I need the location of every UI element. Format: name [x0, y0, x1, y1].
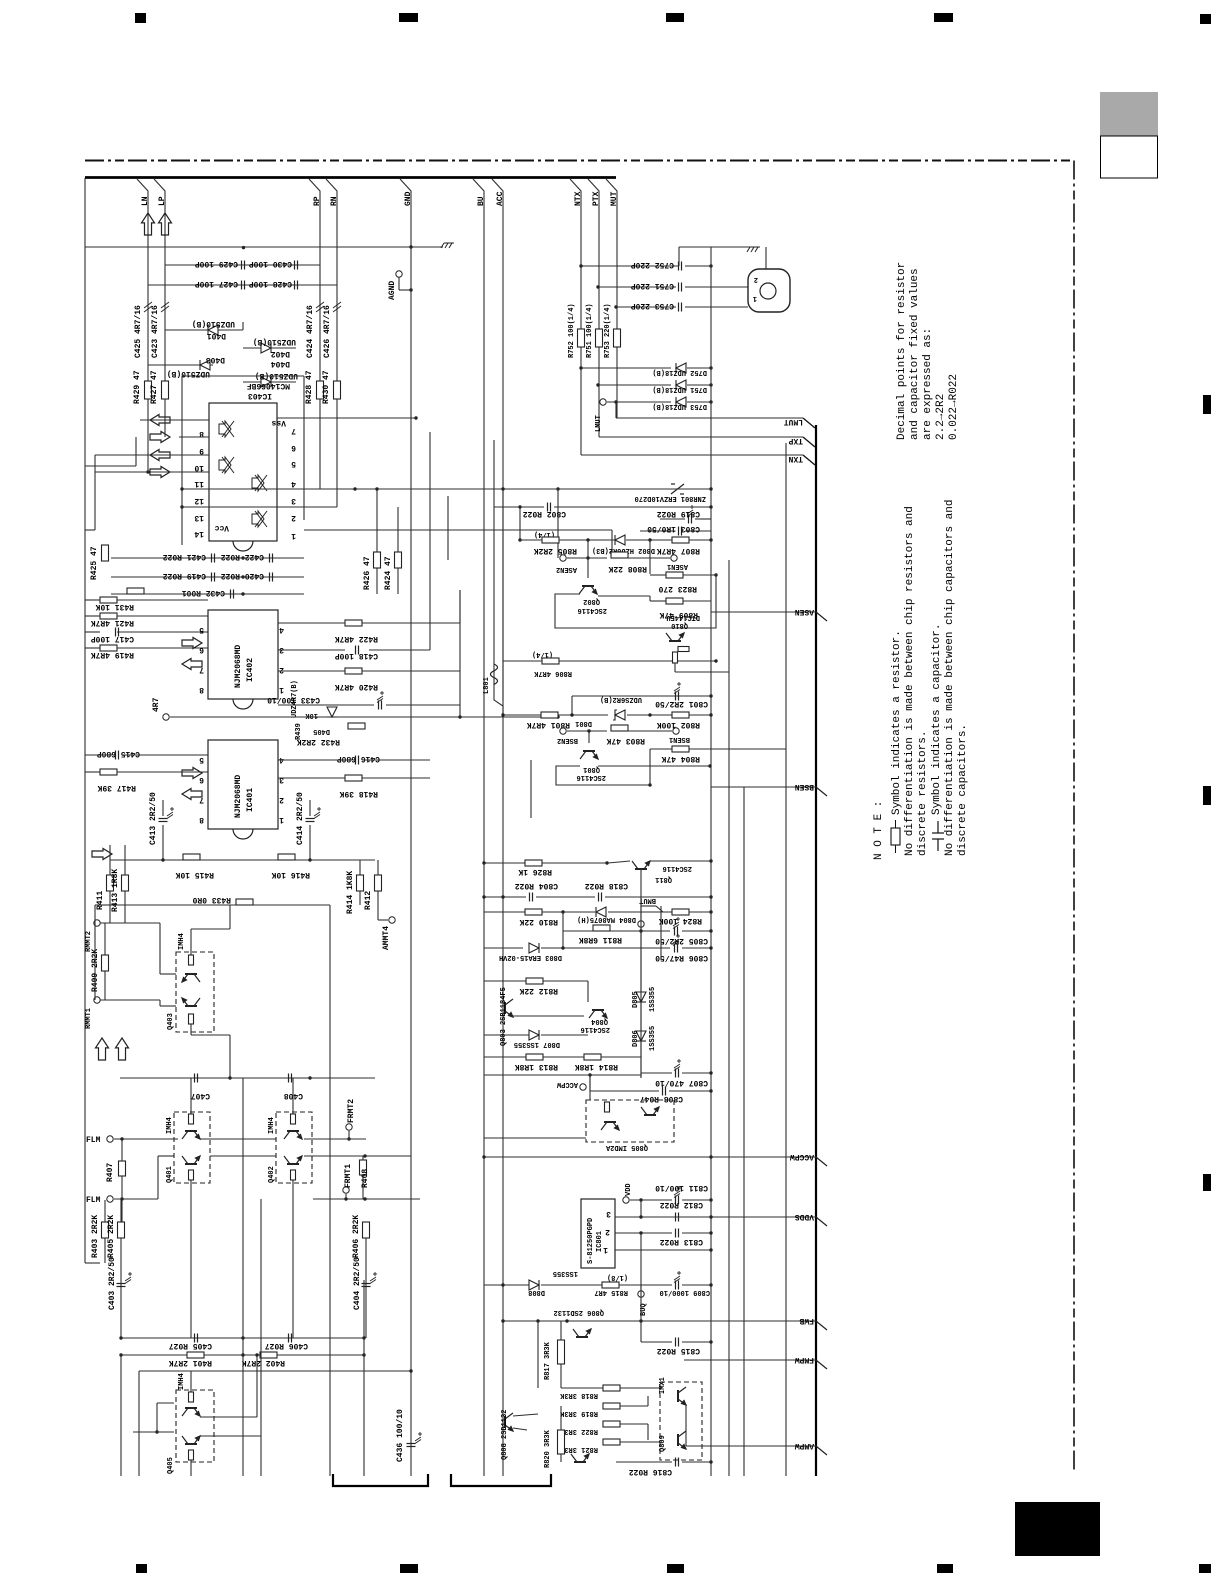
wire: [309, 825, 311, 860]
wire cap row: [148, 284, 337, 286]
junction: [614, 400, 617, 403]
wire: [620, 1423, 648, 1425]
svg-text:D801: D801: [575, 719, 592, 727]
svg-text:C407: C407: [191, 1091, 210, 1100]
svg-text:C815 R022: C815 R022: [657, 1346, 700, 1355]
svg-text:Q805 IMD2A: Q805 IMD2A: [605, 1143, 648, 1151]
wire ic403 pin1 row: [304, 529, 612, 531]
svg-text:D807 1SS355: D807 1SS355: [514, 1040, 560, 1048]
polarity mark: [167, 807, 174, 819]
wire: [587, 540, 589, 558]
svg-text:C428 100P: C428 100P: [249, 279, 292, 288]
svg-text:D806: D806: [632, 1030, 640, 1047]
svg-text:C422 R022: C422 R022: [221, 552, 264, 561]
transistor Q804 2SC4116: [589, 1010, 607, 1018]
wire NTX: [570, 179, 581, 329]
svg-text:1SS355: 1SS355: [553, 1269, 578, 1277]
svg-text:6: 6: [199, 775, 204, 784]
polarity mark: [415, 1432, 422, 1444]
wire GND: [400, 179, 411, 1476]
wire: [620, 1387, 660, 1389]
svg-text:R804 47K: R804 47K: [661, 754, 700, 763]
capacitor C808: [663, 1087, 666, 1096]
transistor Q809b: [678, 1431, 686, 1449]
wire q802 loop: [555, 574, 716, 628]
signal arrow mid: [92, 849, 112, 860]
wire: [104, 1238, 106, 1263]
svg-text:ACCPW: ACCPW: [790, 1152, 814, 1161]
resistor R817: [558, 1340, 565, 1364]
wire: [362, 759, 430, 761]
resistor R821: [603, 1439, 620, 1445]
wire: [513, 1414, 538, 1416]
wire: [689, 539, 711, 541]
svg-text:R421 4R7K: R421 4R7K: [91, 618, 134, 627]
wire: [503, 714, 541, 716]
wire: [304, 1138, 366, 1140]
wire ic403 pin3 row: [182, 488, 558, 490]
resistor R411: [107, 875, 114, 891]
junction: [120, 1137, 123, 1140]
wire d404 row: [243, 381, 296, 383]
wire: [628, 557, 670, 559]
svg-text:2.2→2R2: 2.2→2R2: [935, 394, 947, 440]
signal arrow IC401 in: [182, 768, 202, 779]
svg-text:8: 8: [199, 685, 204, 694]
junction: [119, 1353, 122, 1356]
wire: [649, 749, 651, 785]
wire: [608, 861, 630, 863]
svg-text:No differentiation is made bet: No differentiation is made between chip …: [904, 506, 916, 856]
analog switch IC403b: [219, 457, 234, 473]
flag VDDS: [615, 1212, 827, 1226]
wire Q811 base rail: [640, 869, 642, 920]
junction: [536, 1319, 539, 1322]
junction: [639, 1319, 642, 1322]
wire: [162, 825, 164, 860]
svg-text:ASEN2: ASEN2: [556, 565, 577, 573]
wire lower row right: [313, 1198, 420, 1200]
wire: [682, 1199, 711, 1201]
registration mark bottom 4: [937, 1564, 953, 1573]
svg-text:R802 100K: R802 100K: [657, 720, 700, 729]
svg-text:R812 22K: R812 22K: [519, 986, 558, 995]
note capacitor symbol: [932, 821, 944, 851]
diode D404 UDZ510(B): [261, 377, 271, 387]
resistor R401: [187, 1352, 204, 1358]
junction: [120, 1197, 123, 1200]
junction: [709, 910, 712, 913]
wire: [615, 402, 617, 418]
capacitor C807: [676, 1069, 679, 1078]
wire d803 row: [484, 947, 523, 949]
junction: [709, 1283, 712, 1286]
capacitor (series electrolytic): [333, 302, 341, 312]
svg-text:D402: D402: [271, 349, 290, 358]
wire: [133, 1431, 174, 1433]
wire ic403 pin11 row: [95, 471, 209, 473]
junction: [458, 715, 461, 718]
svg-text:R815 4R7: R815 4R7: [594, 1288, 628, 1296]
junction: [501, 895, 504, 898]
resistor R422: [345, 620, 362, 626]
junction: [482, 1155, 485, 1158]
capacitor C422: [270, 554, 273, 563]
wire: [674, 663, 676, 672]
svg-text:C816 R022: C816 R022: [629, 1467, 672, 1476]
svg-text:1SS355: 1SS355: [649, 1026, 657, 1051]
svg-text:R432 2R2K: R432 2R2K: [297, 737, 340, 746]
svg-text:BMUT: BMUT: [639, 896, 656, 904]
wire: [369, 649, 430, 651]
svg-text:R822 3R3K: R822 3R3K: [559, 1427, 598, 1435]
transistor Q803: [505, 999, 513, 1017]
wire: [542, 911, 595, 913]
svg-text:11: 11: [194, 479, 204, 488]
junction: [556, 715, 559, 718]
svg-text:Q803 2SB1184F5: Q803 2SB1184F5: [500, 987, 508, 1046]
wire: [554, 506, 711, 508]
junction: [709, 859, 712, 862]
svg-text:R803 47K: R803 47K: [606, 736, 645, 745]
svg-text:AMMT4: AMMT4: [382, 926, 391, 950]
svg-text:RMMT1: RMMT1: [85, 1008, 93, 1029]
diode D804 MA8075(H): [596, 907, 606, 917]
wire: [190, 1460, 192, 1476]
wire: [278, 704, 374, 706]
chassis ground (jack): [747, 247, 760, 252]
wire LN cont: [147, 399, 149, 472]
svg-text:C421 R022: C421 R022: [163, 552, 206, 561]
wire: [530, 760, 532, 818]
transistor Q806: [573, 1329, 591, 1337]
wire: [560, 1406, 562, 1430]
junction: [561, 910, 564, 913]
terminal FLM lower: [107, 1196, 113, 1202]
wire: [620, 1405, 648, 1407]
svg-text:D805: D805: [632, 991, 640, 1008]
junction: [180, 505, 183, 508]
junction: [648, 538, 651, 541]
wire: [641, 1072, 672, 1074]
inductor L801: [491, 664, 498, 684]
resistor R434: [127, 588, 144, 594]
svg-text:C802 R022: C802 R022: [523, 509, 566, 518]
svg-text:C819 R022: C819 R022: [657, 509, 700, 518]
svg-text:C419 R022: C419 R022: [163, 571, 206, 580]
junction: [708, 764, 711, 767]
svg-text:Q801: Q801: [583, 765, 600, 773]
wire: [589, 1075, 591, 1100]
varistor ZNR801 ERZV10D270: [671, 484, 684, 494]
polarity mark: [125, 1272, 132, 1284]
flag FWB: [503, 1316, 827, 1330]
svg-text:UDZ510(B): UDZ510(B): [253, 337, 296, 346]
svg-text:Symbol indicates a capacitor.: Symbol indicates a capacitor.: [931, 624, 943, 815]
wire bmut top: [484, 862, 525, 864]
wire: [650, 600, 666, 602]
op-amp U IC402 NJM2068MD body: [208, 610, 278, 699]
wire: [160, 973, 176, 975]
wire pin2 row: [615, 1232, 672, 1234]
junction: [709, 538, 712, 541]
svg-text:ZNR801 ERZV10D270: ZNR801 ERZV10D270: [635, 494, 706, 502]
wire: [687, 367, 711, 369]
svg-text:Q804: Q804: [591, 1017, 608, 1025]
capacitor C429: [242, 261, 245, 270]
wire: [590, 1090, 659, 1092]
capacitor C407: [195, 1074, 198, 1083]
wire: [122, 754, 208, 756]
wire: [85, 615, 100, 617]
resistor R420: [345, 668, 362, 674]
wire: [519, 507, 521, 540]
wire input common: [85, 246, 443, 248]
wire ic403 pin8 row: [140, 419, 209, 421]
svg-text:2SC4116: 2SC4116: [581, 1025, 610, 1033]
junction: [709, 400, 712, 403]
wire d807 row: [484, 1034, 529, 1036]
signal arrow IC402 in: [182, 638, 202, 649]
capacitor C752: [679, 262, 682, 271]
svg-text:R433 0R0: R433 0R0: [192, 895, 231, 904]
wire: [689, 748, 786, 750]
wire jack ground row: [679, 246, 753, 248]
capacitor C805: [675, 927, 678, 936]
junction: [363, 1154, 366, 1157]
svg-text:L801: L801: [483, 677, 491, 694]
wire c752 row: [581, 265, 679, 267]
wire: [397, 507, 399, 552]
capacitor (series electrolytic): [316, 302, 324, 312]
wire left loop: [94, 455, 96, 530]
registration mark bottom 2: [400, 1564, 418, 1573]
resistor R403: [102, 1222, 109, 1238]
wire: [190, 944, 192, 955]
svg-text:R418 39K: R418 39K: [339, 789, 378, 798]
svg-text:(1/8): (1/8): [607, 1273, 628, 1281]
junction: [587, 729, 590, 732]
diode D807 1SS355: [529, 1030, 539, 1040]
svg-text:C418 100P: C418 100P: [335, 651, 378, 660]
wire: [503, 660, 542, 662]
svg-text:R419 4R7K: R419 4R7K: [91, 650, 134, 659]
polarity mark: [673, 917, 680, 929]
wire: [260, 1199, 262, 1476]
black page-number block: [1015, 1502, 1100, 1556]
wire bottom row2: [121, 1354, 365, 1356]
wire: [562, 912, 564, 948]
svg-text:Q811: Q811: [655, 875, 672, 883]
wire: [587, 558, 589, 578]
wire BU: [473, 179, 484, 1476]
svg-text:R424 47: R424 47: [384, 556, 393, 590]
junction: [161, 858, 164, 861]
svg-text:D403: D403: [206, 355, 225, 364]
svg-text:R806 4R7K: R806 4R7K: [533, 669, 572, 677]
junction: [709, 1155, 712, 1158]
wire left edge hook: [85, 1262, 100, 1264]
junction: [709, 929, 712, 932]
transistor Q802 2SC4116: [579, 586, 597, 594]
wire: [121, 1199, 123, 1222]
IC402 notch: [233, 699, 253, 709]
junction: [241, 592, 244, 595]
wire: [242, 322, 244, 330]
wire: [200, 1435, 261, 1437]
flag ACCPW: [484, 1152, 827, 1166]
wire: [558, 714, 608, 716]
resistor R432: [348, 723, 365, 729]
wire: [682, 930, 711, 932]
wire: [685, 265, 711, 267]
wire: [687, 401, 711, 403]
capacitor C432: [231, 590, 234, 599]
resistor R428: [317, 381, 324, 399]
capacitor C418: [356, 646, 359, 655]
resistor (Q405 base b): [189, 1450, 194, 1460]
wire: [567, 557, 607, 559]
svg-text:C432 R001: C432 R001: [182, 588, 225, 597]
resistor R416: [278, 854, 295, 860]
wire mix row3: [139, 1370, 411, 1372]
svg-text:IMX1: IMX1: [659, 1377, 667, 1394]
wire: [159, 923, 161, 974]
svg-text:R826 1K: R826 1K: [518, 867, 552, 876]
fold border dash-dot right: [1073, 161, 1075, 1474]
wire: [567, 730, 607, 732]
wire: [587, 981, 589, 1002]
resistor R417: [100, 769, 117, 775]
terminal AGND: [396, 271, 402, 277]
grey index tab: [1100, 92, 1158, 136]
wire r812 row: [484, 980, 526, 982]
registration mark top 4: [934, 13, 953, 22]
resistor R807: [672, 537, 689, 543]
resistor R805: [542, 537, 559, 543]
svg-text:2: 2: [291, 513, 296, 522]
svg-text:discrete resistors.: discrete resistors.: [917, 731, 929, 856]
svg-text:Q806 2SD1132: Q806 2SD1132: [554, 1308, 604, 1316]
wire: [682, 1232, 711, 1234]
wire: [689, 911, 711, 913]
junction: [362, 1336, 365, 1339]
wire ic403 wrap left: [181, 376, 183, 545]
wire: [359, 891, 361, 905]
junction: [518, 505, 521, 508]
svg-text:R810 22K: R810 22K: [519, 917, 558, 926]
signal arrow IC403 in B: [150, 467, 170, 478]
junction: [709, 505, 712, 508]
junction: [241, 1353, 244, 1356]
svg-text:C811 100/10: C811 100/10: [655, 1183, 708, 1192]
wire: [117, 771, 208, 773]
chassis ground: [441, 243, 454, 248]
wire d751 row: [598, 384, 671, 386]
junction: [347, 1137, 350, 1140]
junction: [482, 861, 485, 864]
svg-text:R406 2R2K: R406 2R2K: [352, 1215, 361, 1258]
wire: [365, 1238, 367, 1338]
resistor R412: [375, 875, 382, 891]
wire: [100, 999, 160, 1001]
signal arrow IC403 out B: [150, 450, 170, 461]
capacitor C815: [676, 1338, 679, 1347]
polarity mark: [674, 1271, 681, 1283]
diode D801 UDZ56R2(B): [613, 710, 625, 720]
svg-text:R821 3R3K: R821 3R3K: [559, 1445, 598, 1453]
wire: [641, 1341, 672, 1343]
polarity mark: [674, 1059, 681, 1071]
svg-text:IC402: IC402: [246, 658, 255, 682]
terminal RMMT1: [94, 997, 100, 1003]
terminal ASEN1: [671, 555, 677, 561]
transistor Q401b: [182, 1156, 200, 1164]
junction: [308, 858, 311, 861]
svg-text:R405 2R2K: R405 2R2K: [107, 1215, 116, 1258]
svg-text:2: 2: [754, 275, 758, 283]
wire: [104, 971, 106, 1000]
junction: [714, 659, 717, 662]
resistor R810: [525, 909, 542, 915]
svg-text:Q802: Q802: [583, 597, 600, 605]
capacitor C813: [676, 1229, 679, 1238]
svg-text:ACCPW: ACCPW: [556, 1080, 578, 1088]
junction: [353, 487, 356, 490]
resistor R752: [578, 329, 585, 347]
wire: [669, 1090, 711, 1092]
wire: [543, 980, 588, 982]
wire: [561, 1387, 603, 1389]
wire: [640, 1233, 642, 1342]
junction: [409, 245, 412, 248]
svg-text:D405: D405: [313, 727, 330, 735]
resistor R406: [363, 1222, 370, 1238]
wire pin1 row: [615, 1249, 711, 1251]
junction: [228, 1076, 231, 1079]
resistor R806: [542, 658, 559, 664]
wire: [660, 518, 685, 520]
resistor R431: [100, 597, 117, 603]
capacitor C421: [212, 554, 215, 563]
junction: [709, 1231, 712, 1234]
terminal BSEN1: [673, 728, 679, 734]
svg-text:R408: R408: [361, 1169, 370, 1188]
wire: [649, 596, 651, 601]
svg-text:are expressed as:: are expressed as:: [922, 328, 934, 440]
svg-text:C813 R022: C813 R022: [660, 1237, 703, 1246]
resistor R (Q810 base): [673, 652, 678, 663]
wire accpw row: [484, 1074, 641, 1076]
IC401 notch: [233, 829, 253, 839]
svg-text:UDZ510(B): UDZ510(B): [167, 369, 210, 378]
junction: [709, 383, 712, 386]
wire: [191, 1034, 230, 1036]
wire c751 row: [598, 286, 676, 288]
wire: [559, 660, 716, 662]
svg-text:5: 5: [199, 755, 204, 764]
capacitor C811: [676, 1196, 679, 1205]
svg-text:Q401: Q401: [166, 1166, 174, 1183]
transistor Q805a: [601, 1122, 619, 1130]
wire right rail A: [710, 247, 712, 1476]
svg-text:D404: D404: [271, 359, 290, 368]
wire mid row: [210, 1155, 276, 1157]
junction: [363, 1197, 366, 1200]
svg-text:C426 4R7/16: C426 4R7/16: [323, 305, 332, 358]
wire cap row: [165, 264, 320, 266]
op-amp U IC403 MC14066BF body: [209, 403, 277, 541]
